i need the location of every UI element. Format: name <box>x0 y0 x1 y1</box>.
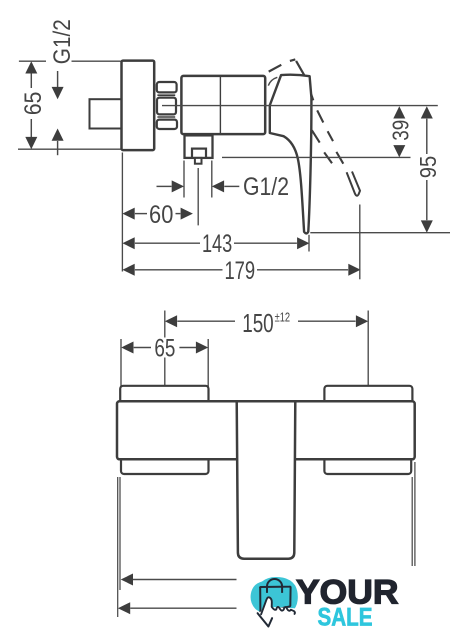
bottom-left tab <box>121 457 209 474</box>
65 dim bottom <box>121 339 208 389</box>
hand wrist <box>258 613 273 626</box>
G1/2 mid dim <box>157 185 172 187</box>
centerline <box>162 105 438 107</box>
escutcheon <box>122 61 155 151</box>
svg-text:143: 143 <box>202 230 232 258</box>
bottom dim line 2 <box>118 602 130 614</box>
60 dim <box>122 208 134 220</box>
svg-text:SALE: SALE <box>318 604 373 632</box>
left ext vertical x122.4 <box>121 153 123 272</box>
svg-text:65: 65 <box>154 335 175 363</box>
valve outlet flange <box>185 135 213 158</box>
hand white fill <box>257 597 295 626</box>
svg-text:179: 179 <box>224 257 255 285</box>
143 dim <box>122 237 134 249</box>
bottom-left ext lines <box>117 477 119 617</box>
top-left tab <box>120 386 208 403</box>
svg-text:G1/2: G1/2 <box>49 19 76 64</box>
valve ext lines <box>184 161 212 226</box>
bottom dim line 1 <box>121 574 133 586</box>
150 dim <box>165 315 177 327</box>
handle front <box>237 400 296 559</box>
svg-text:±12: ±12 <box>275 311 291 325</box>
bottom-right tab <box>324 457 411 474</box>
svg-text:95: 95 <box>415 156 441 179</box>
95 dim <box>421 106 433 118</box>
65 dim vertical <box>30 67 32 145</box>
line y157.4 <box>222 156 411 158</box>
bottom-right ext lines <box>412 462 415 566</box>
pivot arc <box>268 77 277 85</box>
svg-text:60: 60 <box>149 201 173 229</box>
front body <box>117 401 415 459</box>
hex union nut <box>157 82 177 92</box>
150 ext lines <box>164 311 166 404</box>
body divider <box>219 76 221 134</box>
shopping bag <box>260 587 291 613</box>
main body <box>181 76 265 134</box>
hand outline: finger + knuckles <box>261 597 295 614</box>
143 right ext <box>308 235 310 252</box>
cyan blob <box>251 577 298 614</box>
179 right ext <box>359 205 361 280</box>
ext line bottom y149 <box>18 148 121 150</box>
svg-text:G1/2: G1/2 <box>243 173 289 201</box>
dashed lever up position <box>269 59 305 75</box>
top-right tab <box>324 386 412 403</box>
bag handle <box>267 579 282 593</box>
svg-text:65: 65 <box>20 92 47 116</box>
G1/2 arrows to nipple <box>57 71 59 87</box>
valve inner pipe <box>192 149 206 158</box>
line y232.7 <box>310 232 450 234</box>
logo white backdrop <box>237 566 458 640</box>
179 dim <box>122 264 134 276</box>
nipple <box>90 99 122 128</box>
valve nub <box>195 158 202 164</box>
lever solid <box>270 75 312 234</box>
svg-text:150: 150 <box>242 308 274 338</box>
svg-text:39: 39 <box>387 120 413 141</box>
dashed lever blade down <box>311 94 343 164</box>
39 dim <box>393 106 405 118</box>
ext line top y61 <box>19 60 121 62</box>
